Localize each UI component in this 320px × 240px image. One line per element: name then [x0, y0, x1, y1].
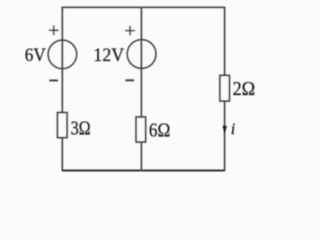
- resistor R1 3ohm: [58, 113, 68, 138]
- voltage source V2 12V: [127, 40, 156, 69]
- svg-text:6Ω: 6Ω: [149, 120, 170, 142]
- voltage source V1 6V: [48, 40, 77, 69]
- resistor R2 6ohm: [136, 117, 146, 142]
- svg-text:12V: 12V: [93, 45, 124, 66]
- wire right branch lower: [224, 101, 226, 171]
- svg-text:3Ω: 3Ω: [71, 117, 91, 139]
- current arrow i: [223, 126, 227, 135]
- wire right branch upper: [224, 7, 226, 76]
- wire left branch upper: [61, 7, 63, 113]
- wire left branch lower: [61, 138, 63, 172]
- minus sign of V2: [125, 79, 134, 81]
- svg-text:6V: 6V: [25, 45, 46, 66]
- wire top horizontal: [62, 6, 224, 8]
- wire middle branch upper: [140, 7, 142, 117]
- svg-text:2Ω: 2Ω: [233, 78, 256, 100]
- wire bottom horizontal: [62, 170, 224, 172]
- wire middle branch lower: [140, 142, 142, 171]
- minus sign of V1: [49, 80, 58, 82]
- svg-text:i: i: [231, 121, 235, 138]
- resistor R3 2ohm: [220, 75, 230, 101]
- plus sign of V2: [125, 26, 135, 36]
- plus sign of V1: [49, 26, 59, 36]
